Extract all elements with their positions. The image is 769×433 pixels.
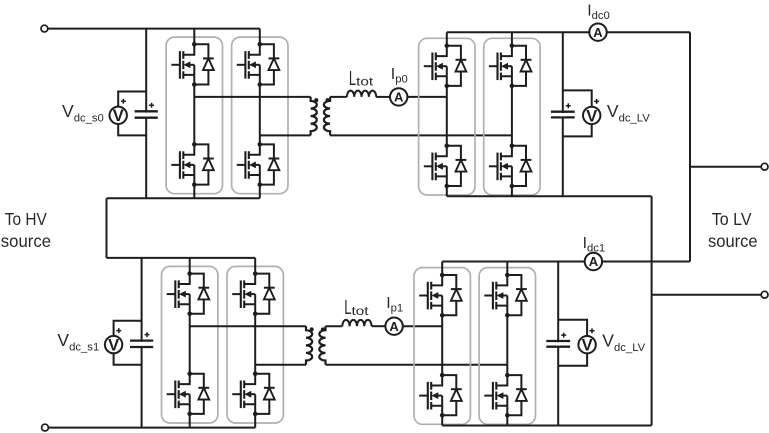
node: source of LV0-A top bbox=[445, 84, 450, 89]
wire: V_dc_LV voltmeter loop (module 0) bbox=[563, 90, 592, 136]
wire: LV - output rail bbox=[651, 196, 653, 425]
wire: HV1 bottom rail bbox=[48, 427, 255, 429]
wire: LV1 bottom rail bbox=[442, 425, 651, 427]
MOSFET HV1-B bottom bbox=[232, 393, 241, 395]
MOSFET LV1-A top bbox=[419, 295, 428, 297]
node: source of LV1-A top bbox=[440, 313, 445, 318]
polarity dot, T1 primary bbox=[310, 327, 314, 331]
body diode of LV0-B bottom bbox=[512, 146, 526, 160]
node: drain of LV1-B top bbox=[505, 273, 510, 278]
svg-text:V: V bbox=[586, 107, 597, 125]
node: source of LV1-B bottom bbox=[505, 413, 510, 418]
node: drain of HV0-B top bbox=[258, 42, 263, 47]
wire: HV0 leg B midpoint to transformer bbox=[260, 134, 311, 136]
body diode of HV1-B top bbox=[255, 274, 269, 288]
node: drain of HV1-B bottom bbox=[253, 371, 258, 376]
wire: rail of leg HV1-A bbox=[189, 258, 191, 428]
polarity dot, T1 secondary bbox=[321, 327, 325, 331]
wire: LV + output rail (paralleling node) bbox=[689, 32, 691, 261]
wire: HV0 leg A midpoint to transformer bbox=[194, 96, 310, 98]
wire: ammeter I_p1 to LV1 bridge bbox=[403, 325, 442, 327]
wire: T0 secondary bottom to LV0 leg B midpoint bbox=[330, 134, 512, 136]
terminal: HV - input bbox=[42, 424, 49, 431]
node: source of LV0-A bottom bbox=[445, 184, 450, 189]
node: drain of LV1-A bottom bbox=[440, 373, 445, 378]
capacitor C_lv0 bbox=[551, 111, 575, 113]
node: drain of LV0-B top bbox=[510, 43, 515, 48]
wire: LV0 bottom rail bbox=[447, 195, 652, 197]
MOSFET LV0-B top bbox=[489, 65, 498, 67]
svg-text:source: source bbox=[708, 231, 758, 251]
wire: V_dc_s1 voltmeter loop bbox=[114, 321, 142, 365]
body diode of HV1-B bottom bbox=[255, 374, 269, 388]
MOSFET LV0-B bottom bbox=[489, 165, 498, 167]
voltmeter V_dc_LV (module 0) bbox=[583, 107, 600, 124]
wire: rail of leg LV1-B bbox=[506, 262, 508, 426]
capacitor C_hv0 bbox=[135, 110, 158, 112]
body diode of HV1-A bottom bbox=[190, 374, 204, 388]
body diode of LV1-A top bbox=[442, 275, 456, 289]
svg-text:To HV: To HV bbox=[5, 209, 47, 229]
inductor L_tot (module 1) bbox=[342, 320, 371, 326]
transformer T0 secondary winding bbox=[324, 97, 330, 135]
wire: HV0 top rail bbox=[48, 28, 260, 30]
MOSFET HV1-B top bbox=[232, 293, 241, 295]
polarity + of C_hv1 bbox=[145, 332, 150, 337]
wire: LV1 top rail to output node bbox=[602, 261, 690, 263]
voltmeter V_dc_s1 bbox=[105, 336, 122, 353]
node: source of HV1-A bottom bbox=[187, 412, 192, 417]
terminal: LV - output bbox=[761, 291, 768, 298]
leg outline HV0-B bbox=[232, 37, 288, 194]
body diode of LV1-B bottom bbox=[507, 375, 521, 389]
node: drain of HV1-A bottom bbox=[187, 371, 192, 376]
voltmeter V_dc_s0 bbox=[110, 107, 127, 124]
node: drain of LV1-B bottom bbox=[505, 373, 510, 378]
MOSFET LV0-A top bbox=[424, 65, 433, 67]
terminal: LV + output bbox=[761, 163, 768, 170]
polarity + of voltmeter V_dc_s0 bbox=[121, 99, 126, 104]
node: source of LV0-B bottom bbox=[510, 184, 515, 189]
MOSFET LV0-A bottom bbox=[424, 165, 433, 167]
leg outline HV1-A bbox=[162, 266, 218, 423]
MOSFET LV1-B bottom bbox=[484, 395, 493, 397]
node: source of HV1-A top bbox=[187, 312, 192, 317]
wire: HV1 leg A midpoint to transformer bbox=[190, 325, 306, 327]
polarity dot, T0 secondary bbox=[326, 98, 330, 102]
MOSFET HV1-A top bbox=[167, 293, 176, 295]
body diode of LV1-B top bbox=[507, 275, 521, 289]
MOSFET LV1-B top bbox=[484, 295, 493, 297]
ammeter I_p0 bbox=[390, 88, 407, 105]
svg-text:V: V bbox=[113, 107, 124, 125]
body diode of HV0-A bottom bbox=[194, 144, 208, 158]
wire: series link HV0- to HV1+ bbox=[106, 198, 108, 258]
ammeter I_p1 bbox=[385, 318, 402, 335]
inductor L_tot (module 0) bbox=[347, 91, 376, 97]
node: drain of LV1-A top bbox=[440, 273, 445, 278]
svg-text:A: A bbox=[589, 254, 599, 269]
svg-text:A: A bbox=[394, 90, 404, 105]
wire: HV1 leg B midpoint to transformer bbox=[255, 364, 306, 366]
wire: rail of leg LV0-B bbox=[511, 32, 513, 196]
transformer T1 primary winding bbox=[306, 326, 312, 365]
node: source of LV1-A bottom bbox=[440, 413, 445, 418]
node: source of HV1-B top bbox=[253, 312, 258, 317]
node: source of HV0-B bottom bbox=[258, 182, 263, 187]
wire: LV0 dc-link branch bbox=[562, 32, 564, 196]
ammeter I_dc0 bbox=[589, 24, 606, 41]
node: source of HV0-B top bbox=[258, 82, 263, 87]
leg outline LV1-B bbox=[479, 268, 535, 425]
wire: tap to LV - terminal bbox=[652, 294, 762, 296]
transformer T0 primary winding bbox=[311, 97, 317, 135]
wire: ammeter I_p0 to LV0 bridge bbox=[407, 96, 446, 98]
transformer T1 secondary winding bbox=[319, 326, 325, 365]
node: source of HV1-B bottom bbox=[253, 412, 258, 417]
wire: rail of leg LV0-A bbox=[446, 32, 448, 196]
MOSFET HV0-A top bbox=[171, 64, 180, 66]
capacitor C_hv1 bbox=[130, 339, 153, 341]
wire: T0 secondary to L_tot bbox=[330, 96, 347, 98]
polarity dot, T0 primary bbox=[314, 98, 318, 102]
body diode of LV0-A top bbox=[447, 46, 461, 60]
MOSFET HV1-A bottom bbox=[167, 393, 176, 395]
terminal: HV + input bbox=[41, 25, 48, 32]
node: drain of LV0-A bottom bbox=[445, 144, 450, 149]
node: drain of LV0-A top bbox=[445, 43, 450, 48]
node: source of HV0-A bottom bbox=[192, 182, 197, 187]
wire: L_tot to ammeter I_p0 bbox=[376, 96, 390, 98]
svg-text:To LV: To LV bbox=[712, 209, 752, 229]
leg outline HV0-A bbox=[166, 37, 222, 194]
node: drain of HV1-B top bbox=[253, 271, 258, 276]
wire: L_tot to ammeter I_p1 bbox=[372, 325, 386, 327]
node: drain of HV0-A bottom bbox=[192, 142, 197, 147]
wire: HV0 bottom rail bbox=[107, 197, 260, 199]
body diode of LV0-B top bbox=[512, 46, 526, 60]
polarity + of C_hv0 bbox=[149, 103, 154, 108]
polarity + of voltmeter V_dc_LV (module 0) bbox=[594, 99, 599, 104]
node: drain of HV1-A top bbox=[187, 271, 192, 276]
wire: V_dc_s0 voltmeter loop bbox=[118, 92, 146, 136]
wire: LV1 dc-link branch bbox=[557, 262, 559, 426]
svg-text:V: V bbox=[108, 337, 119, 355]
body diode of HV1-A top bbox=[190, 274, 204, 288]
MOSFET LV1-A bottom bbox=[419, 395, 428, 397]
leg outline LV0-B bbox=[484, 38, 540, 195]
wire: rail of leg HV0-B bbox=[259, 29, 261, 199]
polarity + of voltmeter V_dc_s1 bbox=[116, 328, 121, 333]
wire: LV0 top rail bbox=[447, 31, 590, 33]
wire: HV1 top rail (from series link) bbox=[107, 257, 256, 259]
svg-text:source: source bbox=[1, 231, 51, 251]
body diode of LV0-A bottom bbox=[447, 146, 461, 160]
MOSFET HV0-A bottom bbox=[171, 164, 180, 166]
wire: LV1 top rail bbox=[442, 261, 585, 263]
wire: LV0 top rail to output node bbox=[607, 31, 690, 33]
leg outline LV0-A bbox=[419, 38, 475, 195]
svg-text:A: A bbox=[389, 319, 399, 334]
wire: V_dc_LV voltmeter loop (module 1) bbox=[558, 320, 587, 366]
wire: HV1 dc-link branch bbox=[141, 258, 143, 428]
node: source of HV0-A top bbox=[192, 82, 197, 87]
wire: tap to LV + terminal bbox=[690, 166, 761, 168]
body diode of HV0-A top bbox=[194, 44, 208, 58]
node: source of LV0-B top bbox=[510, 84, 515, 89]
capacitor C_lv1 bbox=[546, 340, 570, 342]
polarity + of voltmeter V_dc_LV (module 1) bbox=[590, 328, 595, 333]
svg-text:V: V bbox=[582, 337, 593, 355]
node: drain of HV0-A top bbox=[192, 42, 197, 47]
node: drain of LV0-B bottom bbox=[510, 144, 515, 149]
voltmeter V_dc_LV (module 1) bbox=[578, 336, 595, 353]
ammeter I_dc1 bbox=[585, 253, 602, 270]
body diode of HV0-B top bbox=[260, 44, 274, 58]
wire: T1 secondary to L_tot bbox=[326, 325, 343, 327]
wire: rail of leg HV0-A bbox=[193, 29, 195, 199]
svg-text:A: A bbox=[593, 25, 603, 40]
body diode of HV0-B bottom bbox=[260, 144, 274, 158]
wire: rail of leg HV1-B bbox=[254, 258, 256, 428]
MOSFET HV0-B top bbox=[237, 64, 246, 66]
wire: rail of leg LV1-A bbox=[441, 262, 443, 426]
wire: T1 secondary bottom to LV1 leg B midpoint bbox=[326, 364, 508, 366]
MOSFET HV0-B bottom bbox=[237, 164, 246, 166]
node: drain of HV0-B bottom bbox=[258, 142, 263, 147]
polarity + of C_lv1 bbox=[561, 333, 566, 338]
body diode of LV1-A bottom bbox=[442, 375, 456, 389]
leg outline LV1-A bbox=[414, 268, 470, 425]
wire: HV0 dc-link branch bbox=[145, 29, 147, 199]
polarity + of C_lv0 bbox=[566, 103, 571, 108]
node: source of LV1-B top bbox=[505, 313, 510, 318]
leg outline HV1-B bbox=[227, 266, 283, 423]
